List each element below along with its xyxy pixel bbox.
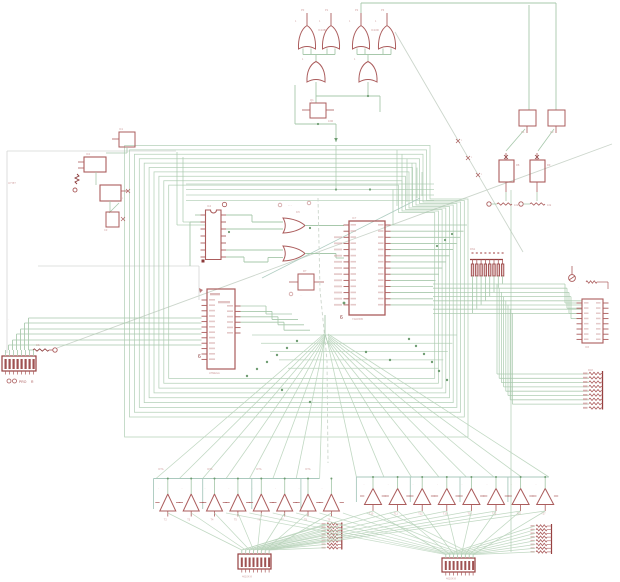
ic IC6 (577, 299, 609, 349)
transistor T13 (434, 476, 460, 516)
dip-switch S1 (2, 350, 36, 375)
svg-text:IC2: IC2 (86, 152, 91, 156)
or-gate IC10B (319, 8, 340, 49)
svg-text:IC4: IC4 (207, 204, 212, 208)
ic IC1 (106, 127, 135, 153)
wire fan RN4 to RN6 (446, 526, 535, 555)
transistor T12 (409, 476, 435, 516)
wire IC4 right nets (226, 215, 283, 262)
svg-text:IC?A: IC?A (207, 468, 213, 471)
svg-text:··: ·· (251, 488, 253, 490)
svg-text:IC?A: IC?A (256, 468, 262, 471)
wire mid routing band (252, 335, 457, 368)
wire diagonal net D3 (262, 198, 420, 278)
crystal Q1 (302, 98, 334, 123)
wire C2 to R9 (538, 129, 554, 151)
wire IC8 right staircase (241, 306, 311, 330)
wire fan from hub (156, 315, 549, 479)
label IC10 gates (318, 28, 379, 32)
resistor network RN4 (442, 555, 475, 581)
ic IC2 (78, 152, 106, 172)
transistor T3 (179, 478, 204, 522)
svg-text:16M: 16M (328, 119, 333, 123)
or-gate IC11B (354, 58, 377, 82)
capacitor C3 (96, 172, 125, 232)
transistor T11 (385, 476, 411, 516)
svg-text:10k: 10k (547, 203, 552, 207)
transistor T16 (508, 476, 534, 516)
wire net Q1 to band (336, 146, 393, 225)
wire fan RN2 to row1 (168, 513, 332, 550)
wire diagonal net D1 (395, 32, 523, 252)
svg-text:IC6: IC6 (585, 345, 590, 349)
svg-text:10k: 10k (514, 203, 519, 207)
svg-text:ATMEGA: ATMEGA (209, 371, 220, 375)
wire fan RN2 to RN5 (242, 524, 326, 550)
wire inner bus band (186, 184, 434, 201)
svg-text:4610X-8: 4610X-8 (446, 577, 456, 581)
wire gray frame left (7, 151, 199, 353)
wire left bus to IC8 (9, 318, 202, 350)
svg-text:R8: R8 (516, 163, 520, 167)
resistor R12 box (289, 269, 324, 297)
or-gate IC5A (283, 218, 305, 233)
label S1 value (7, 379, 34, 384)
wire long vertical net (510, 190, 512, 552)
svg-text:P3: P3 (381, 8, 385, 12)
ic IC4 (201, 202, 227, 262)
svg-text:6: 6 (340, 315, 343, 321)
wire gate outputs down (295, 82, 380, 142)
svg-text:··: ·· (535, 484, 537, 486)
svg-text:R9: R9 (547, 163, 551, 167)
svg-text:R?: R? (303, 269, 307, 273)
transistor T9 (319, 478, 344, 522)
ic IC3 (100, 185, 130, 213)
or-gate IC10D (375, 8, 396, 49)
or-gate IC10A (295, 8, 316, 49)
wire top net to C boxes (361, 3, 556, 110)
svg-text:P1: P1 (325, 8, 329, 12)
or-gate IC5B (283, 246, 305, 261)
label gate annotations (278, 201, 311, 214)
svg-text:··: ·· (511, 484, 513, 486)
crystal Y1 (73, 174, 79, 192)
wire bus to IC6 (433, 284, 582, 319)
resistor network RN2 (238, 550, 271, 579)
svg-text:Q1: Q1 (310, 98, 314, 102)
svg-text:IC?A: IC?A (305, 468, 311, 471)
svg-text:··: ·· (181, 488, 183, 490)
transistor T6 (249, 478, 274, 522)
wire IC7 right nets (391, 225, 468, 305)
svg-text:IC7: IC7 (352, 216, 357, 220)
svg-text:P2: P2 (355, 8, 359, 12)
transistor T14 (458, 476, 484, 516)
svg-text:U? B?: U? B? (8, 181, 16, 185)
resistor R9 box (530, 153, 551, 192)
wire comb row2 (356, 477, 548, 502)
svg-text:RN1: RN1 (470, 247, 476, 251)
svg-text:··: ·· (158, 488, 160, 490)
wire gate outputs to IC7 (305, 226, 344, 259)
or-gate IC11A (302, 58, 325, 82)
junction dots in bus area (246, 338, 448, 403)
or-gate IC10C (349, 8, 370, 49)
svg-text:4610X-8: 4610X-8 (242, 575, 252, 579)
svg-text:· ·: · · (300, 294, 302, 297)
resistor R8 box (499, 153, 520, 192)
svg-text:74HC595: 74HC595 (352, 317, 364, 321)
resistor network RN3 (583, 369, 603, 410)
resistor R10 (487, 192, 519, 207)
wire bus to RN3 (497, 284, 589, 404)
svg-text:··: ·· (228, 488, 230, 490)
transistor T15 (483, 476, 509, 516)
wire fan RN4 to row2 (373, 511, 545, 555)
wire fan RN4 to row1 (226, 513, 473, 555)
transistor T1 (569, 266, 608, 289)
svg-text:··: ·· (412, 484, 414, 486)
svg-text:IC?A: IC?A (158, 468, 164, 471)
capacitor C1 (519, 110, 536, 134)
svg-text:··: ·· (461, 484, 463, 486)
wire C1 to R8 (506, 129, 525, 151)
transistor T8 (296, 478, 321, 522)
resistor network RN5 (322, 523, 342, 550)
wire IC4 left nets (190, 215, 201, 266)
transistor T2 (155, 478, 180, 522)
wire fan RN2 to row2 (242, 511, 545, 550)
label row1 gate names (158, 468, 311, 471)
svg-text:P0: P0 (301, 8, 305, 12)
svg-text:IC10D: IC10D (371, 28, 379, 32)
wire right top bundle (397, 150, 422, 206)
capacitor C2 (548, 110, 565, 134)
svg-text:IC10B: IC10B (318, 28, 326, 32)
resistor R11 (519, 192, 552, 207)
wire comb row1 (154, 479, 320, 510)
transistor T10 (360, 476, 386, 516)
transistor T17 (532, 476, 558, 516)
resistor network RN6 (531, 524, 552, 554)
svg-text:T12: T12 (418, 513, 423, 516)
svg-text:C3: C3 (104, 228, 108, 232)
label left texts (8, 181, 16, 185)
wire stubs to IC4 (177, 152, 205, 225)
transistor T4 (202, 478, 227, 522)
transistor T7 (272, 478, 297, 522)
wire bus loop bundle (125, 146, 468, 438)
svg-text:··: ·· (321, 488, 323, 490)
svg-text:IC5: IC5 (296, 211, 300, 214)
resistor R13 (29, 344, 58, 352)
ic IC7 (334, 216, 391, 321)
wire gate interconnect top (303, 49, 391, 62)
svg-text:IC1: IC1 (119, 127, 124, 131)
svg-text:··: ·· (388, 484, 390, 486)
svg-text:- - -: - - - (288, 204, 292, 207)
svg-text:··: ·· (275, 488, 277, 490)
svg-text:6: 6 (198, 354, 201, 360)
resistor network RN1 (470, 247, 504, 313)
svg-text:PRO: PRO (19, 380, 27, 384)
svg-text:··: ·· (437, 484, 439, 486)
svg-text:RN3: RN3 (588, 369, 593, 372)
wire diagonal net D2 (57, 144, 612, 348)
transistor T5 (225, 478, 250, 522)
wire dashed net (318, 198, 328, 463)
pin crosses on D1 (456, 139, 483, 177)
ic IC8 (198, 288, 241, 375)
